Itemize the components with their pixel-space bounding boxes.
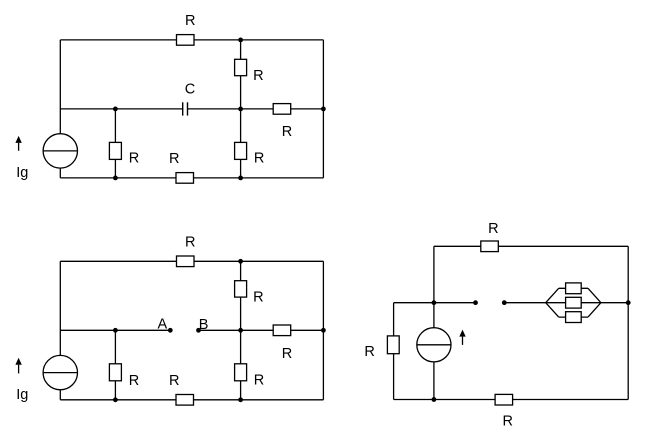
node B dot c2 — [196, 328, 201, 333]
junction dot c3 — [432, 397, 437, 402]
wire bridge top-right diagonal c3 — [588, 288, 601, 302]
wire top rail c2 — [60, 260, 323, 262]
resistor R bottom c2 — [176, 395, 194, 406]
svg-text:R: R — [169, 151, 179, 167]
resistor R right horizontal c1 — [273, 104, 291, 115]
node A dot c2 — [168, 328, 173, 333]
svg-text:R: R — [282, 346, 292, 362]
wire left inner branch c2 — [114, 330, 116, 400]
wire junction to open terminal c3 — [434, 302, 476, 304]
svg-text:A: A — [158, 317, 168, 333]
junction dot c2 — [113, 397, 118, 402]
junction dot c1 — [113, 176, 118, 181]
wire open terminal to bridge c3 — [504, 302, 545, 304]
wire center branch c1 — [240, 40, 242, 178]
svg-text:R: R — [253, 68, 263, 84]
wire bottom rail c1 — [60, 177, 323, 179]
junction dot c2 — [238, 328, 243, 333]
wire node B to right c2 — [199, 329, 324, 331]
svg-text:R: R — [129, 373, 139, 389]
current source c3 — [417, 328, 451, 362]
wire right rail c3 — [627, 246, 629, 399]
junction dot c1 — [321, 107, 326, 112]
wire right rail c1 — [322, 40, 324, 178]
resistor R bottom c1 — [176, 173, 194, 184]
wire left rail upper c1 — [59, 40, 61, 134]
resistor R left vertical c3 — [387, 336, 399, 354]
svg-text:R: R — [503, 414, 513, 430]
wire bridge bottom-right diagonal c3 — [588, 303, 601, 317]
current source Ig c2 — [43, 355, 77, 389]
svg-text:R: R — [254, 150, 264, 166]
resistor R top c1 — [177, 35, 195, 46]
svg-text:R: R — [488, 221, 498, 237]
junction dot c3 — [626, 300, 631, 305]
wire inner left rail upper c3 — [433, 246, 435, 327]
wire left rail upper c2 — [59, 261, 61, 355]
wire inner left rail lower c3 — [433, 362, 435, 400]
bridge resistor bottom c3 — [566, 312, 582, 323]
resistor R left inner c1 — [109, 142, 121, 159]
svg-text:R: R — [282, 124, 292, 140]
junction dot c1 — [238, 107, 243, 112]
svg-text:B: B — [199, 317, 209, 333]
wire center branch c2 — [240, 261, 242, 400]
wire right rail c2 — [322, 261, 324, 400]
wire left rail lower c2 — [59, 390, 61, 400]
svg-text:Ig: Ig — [16, 387, 28, 403]
wire bridge top horizontal c3 — [559, 287, 588, 289]
resistor R bottom c3 — [495, 394, 512, 405]
resistor R top c2 — [177, 256, 195, 267]
bridge resistor top c3 — [566, 283, 582, 294]
svg-text:R: R — [253, 290, 263, 306]
junction dot c2 — [238, 259, 243, 264]
svg-text:R: R — [254, 373, 264, 389]
wire top rail c1 — [60, 39, 323, 41]
wire bridge middle horizontal c3 — [546, 302, 601, 304]
junction dot c1 — [238, 38, 243, 43]
svg-text:R: R — [129, 151, 139, 167]
svg-text:R: R — [364, 344, 374, 360]
wire bridge bottom-left diagonal c3 — [546, 303, 559, 317]
wire bridge bottom horizontal c3 — [559, 316, 588, 318]
wire left rail lower c1 — [59, 168, 61, 178]
wire bridge top-left diagonal c3 — [546, 288, 559, 302]
wire bottom rail c2 — [60, 399, 323, 401]
bridge resistor middle c3 — [566, 297, 582, 308]
wire middle left c1 — [60, 108, 182, 110]
wire middle to node A c2 — [60, 329, 170, 331]
junction dot c3 — [432, 300, 437, 305]
resistor R lower center c2 — [235, 364, 247, 381]
current arrow c2 — [15, 358, 21, 374]
capacitor C c1 — [183, 102, 188, 115]
junction dot c2 — [238, 397, 243, 402]
junction dot c1 — [113, 107, 118, 112]
wire outer-to-inner connector c3 — [394, 302, 434, 304]
wire bridge to right rail c3 — [601, 302, 628, 304]
svg-text:R: R — [185, 234, 195, 250]
junction dot c1 — [238, 176, 243, 181]
wire left inner branch c1 — [114, 109, 116, 178]
resistor R right horizontal c2 — [273, 325, 291, 336]
resistor R lower center c1 — [235, 142, 247, 159]
resistor R upper center c2 — [235, 281, 247, 297]
svg-text:R: R — [169, 373, 179, 389]
open terminal dot c3 — [502, 300, 507, 305]
current arrow c1 — [15, 136, 21, 151]
current source Ig c1 — [43, 134, 77, 168]
wire bottom rail c3 — [394, 399, 629, 401]
current arrow c3 — [459, 330, 465, 345]
wire outer left rail c3 — [393, 303, 395, 400]
junction dot c2 — [321, 328, 326, 333]
resistor R top c3 — [481, 241, 499, 252]
svg-text:R: R — [185, 13, 195, 29]
svg-text:C: C — [185, 81, 195, 97]
svg-text:Ig: Ig — [16, 165, 28, 181]
open terminal dot c3 — [473, 300, 478, 305]
resistor R left inner c2 — [109, 364, 121, 381]
junction dot c2 — [113, 328, 118, 333]
wire middle right c1 — [188, 108, 324, 110]
wire top rail c3 — [434, 245, 628, 247]
resistor R upper center c1 — [235, 59, 247, 75]
